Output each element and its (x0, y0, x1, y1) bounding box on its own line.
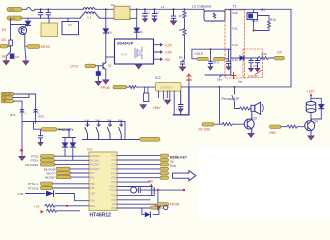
key S4 (108, 122, 112, 140)
svg-text:+18V: +18V (164, 51, 173, 55)
svg-text:OSC1: OSC1 (110, 187, 117, 189)
svg-text:K12: K12 (232, 43, 238, 47)
wire R13r (117, 207, 150, 209)
net pad COl-P (197, 57, 208, 60)
red cross mark T1 bottom (231, 73, 236, 79)
net pad 0V (160, 158, 169, 161)
svg-text:PA5: PA5 (90, 177, 95, 180)
wire L3 to T1 (204, 9, 245, 11)
U1 pin right 2 (154, 51, 163, 53)
resistor R10 (268, 16, 271, 31)
svg-text:PD1: PD1 (111, 195, 116, 197)
net pad PTS3 (40, 186, 52, 189)
resistor R16 (258, 56, 274, 59)
wire U1 left pin (106, 56, 115, 58)
resistor R18 (240, 107, 252, 110)
svg-text:2ESC: 2ESC (41, 45, 51, 49)
svg-text:PD0: PD0 (111, 182, 116, 184)
svg-text:S1: S1 (261, 8, 265, 12)
net pad 1T1V (85, 64, 96, 67)
net pad p4 (160, 167, 169, 170)
wire R3r (117, 163, 160, 165)
resistor R2 body (10, 54, 15, 59)
svg-text:IC1: IC1 (87, 148, 92, 152)
svg-text:Q3: Q3 (253, 117, 257, 121)
svg-text:PA3/AN3: PA3/AN3 (90, 168, 100, 171)
ground Q3 (248, 134, 254, 138)
wire rail right riser (245, 9, 291, 87)
svg-text:R16: R16 (262, 52, 268, 56)
svg-text:R8: R8 (179, 28, 183, 32)
svg-text:R2 19HI: R2 19HI (199, 128, 211, 132)
wire OC pad to branch (6, 46, 10, 60)
relay box T (41, 23, 58, 37)
ground Q4 (308, 136, 314, 140)
svg-text:SD4842P: SD4842P (117, 42, 134, 46)
wire Q3 emitter (250, 131, 253, 134)
svg-text:+12V: +12V (164, 43, 173, 47)
wire secondary tap upper (192, 49, 231, 59)
connector pad ACN (7, 16, 22, 20)
diode D11 (46, 191, 54, 197)
net pad p5 (160, 172, 169, 175)
net pad row long (140, 137, 161, 141)
capacitor C6 (96, 66, 101, 82)
diode D12 (145, 212, 151, 217)
svg-text:L1: L1 (88, 16, 92, 20)
capacitor C2 (152, 9, 157, 18)
flow arrow big (173, 171, 196, 181)
ground Q2 (103, 80, 109, 84)
svg-text:PA1/AN1: PA1/AN1 (90, 159, 100, 162)
switch SW1 (232, 87, 240, 109)
diode D10 (70, 143, 75, 147)
capacitor C13 (179, 91, 184, 115)
svg-text:MOSM: MOSM (45, 176, 55, 180)
wire L1r (54, 155, 89, 157)
svg-text:1N4: 1N4 (107, 119, 112, 123)
svg-text:COl-P: COl-P (194, 52, 203, 56)
svg-text:HT46R12: HT46R12 (90, 212, 112, 218)
ground VR1 (140, 105, 146, 109)
polarity mark C2 (152, 19, 157, 22)
wire drop PTK-C (225, 49, 229, 59)
capacitor C15b (38, 136, 42, 143)
svg-text:PA2/AN2: PA2/AN2 (90, 164, 100, 167)
svg-text:+VM: +VM (17, 192, 24, 196)
svg-text:M8: M8 (22, 28, 26, 32)
svg-text:PB0: PB0 (90, 184, 95, 186)
key S5 (119, 122, 123, 140)
svg-text:K13: K13 (232, 58, 238, 62)
T1 primary winding (230, 9, 232, 75)
wire key row (33, 122, 69, 138)
svg-text:CY: CY (68, 23, 72, 27)
capacitor C1 (143, 9, 148, 18)
wire L7r (53, 183, 89, 185)
wire R10r (117, 194, 155, 196)
svg-text:K36: K36 (232, 11, 238, 15)
red arrow row13 (41, 210, 45, 213)
wire top to bridge (95, 8, 114, 10)
junction xtal (157, 189, 159, 191)
svg-text:PC1: PC1 (111, 160, 116, 162)
net pad bat1 (1, 92, 14, 96)
wire R5r (117, 172, 160, 174)
capacitor C12 (255, 58, 259, 69)
svg-text:PD3: PD3 (111, 208, 116, 210)
svg-text:PA4: PA4 (90, 172, 95, 175)
crystal Y1 (131, 187, 141, 193)
svg-text:BT2: BT2 (39, 115, 45, 119)
wire Q2 source down (105, 70, 107, 81)
wire battery rail (22, 116, 125, 157)
svg-text:PC4: PC4 (111, 173, 116, 175)
capacitor C10 (226, 61, 230, 67)
power symbol +V rail (188, 81, 190, 87)
svg-text:+5V: +5V (148, 179, 155, 183)
wire R4r (117, 168, 160, 170)
svg-text:+5V: +5V (164, 58, 171, 62)
wire fan top (311, 96, 321, 105)
connector pad ACL (7, 7, 22, 11)
wire cap gnd (157, 191, 159, 206)
wire neutral to bridge (100, 17, 115, 19)
svg-text:BT1: BT1 (10, 113, 16, 117)
wire R1r (117, 155, 160, 157)
resistor R1 (9, 40, 13, 46)
power arrow +12V (310, 93, 313, 96)
junction rail D3 (136, 8, 138, 10)
IC2 pin 5 (173, 91, 175, 115)
svg-text:RES: RES (90, 206, 95, 208)
ground left A (3, 61, 9, 65)
wire S1 out (254, 9, 269, 30)
curl mark snubber (220, 75, 226, 77)
inductor L3 box (204, 11, 225, 21)
svg-text:L4: L4 (161, 5, 165, 9)
wire L3r (55, 163, 89, 165)
ground C9 (208, 67, 213, 70)
U1 pin right 3 (154, 58, 163, 60)
power arrow red +V (187, 74, 192, 80)
junction rail q3 (219, 86, 221, 88)
resistor R8 (183, 29, 187, 62)
inductor L1 common-mode choke upper winding (83, 8, 95, 10)
wire L8r (53, 187, 89, 189)
regulator S1 box (247, 13, 258, 20)
net pad PTK-C (214, 57, 225, 60)
svg-text:IC2: IC2 (155, 76, 161, 80)
svg-text:R2: R2 (15, 55, 19, 59)
wire R6r (117, 177, 160, 179)
wire to ground 2 (25, 58, 27, 61)
capacitor C11 (249, 58, 253, 69)
wire T1 bottom tap (205, 74, 231, 76)
svg-text:1N4: 1N4 (95, 119, 100, 123)
diode D5 (25, 21, 30, 25)
trimmer VR1 (143, 87, 149, 104)
wire base drop (214, 87, 222, 124)
svg-text:4842: 4842 (121, 53, 128, 57)
wire DC rail from bridge (130, 8, 204, 10)
ground battery (19, 157, 25, 161)
svg-text:1N4148: 1N4148 (248, 74, 258, 78)
IC2 pin 2 (162, 91, 164, 99)
svg-text:18e: 18e (217, 77, 222, 81)
wire R7r (117, 181, 150, 183)
svg-text:INT: INT (112, 204, 116, 206)
svg-text:ACN: ACN (9, 16, 15, 20)
svg-text:C/F: C/F (277, 50, 282, 54)
capacitor pair C16 (152, 187, 154, 196)
diode D3 (134, 28, 139, 32)
U1 internal mosfet (135, 47, 142, 59)
net pad OC2 (150, 206, 157, 209)
polarity mark C1 (143, 19, 148, 22)
mcu IC1 box (89, 152, 117, 210)
inductor L1 lower winding (80, 12, 100, 18)
net pad bat2 (1, 96, 13, 100)
svg-text:VB-: VB- (2, 100, 6, 103)
wire L4r (70, 168, 89, 170)
net pad OC (0, 44, 8, 48)
wire D3 drop (130, 9, 137, 39)
svg-text:PB1: PB1 (90, 188, 95, 190)
svg-text:PC5: PC5 (111, 178, 116, 180)
net pad FAN (270, 125, 282, 128)
svg-text:K11: K11 (232, 26, 237, 30)
wire L2r (54, 159, 89, 161)
net pad MEME-KEY (160, 154, 169, 157)
svg-text:PnO-KEY: PnO-KEY (59, 128, 75, 132)
wire AC line top (22, 8, 83, 10)
battery BT1 (20, 109, 26, 115)
ground C6 (95, 82, 101, 86)
wire L5r (71, 172, 90, 174)
svg-text:VDD: VDD (90, 194, 95, 196)
wire AC neutral (22, 17, 80, 19)
junction R7 (184, 8, 186, 10)
fuse F1 (27, 7, 36, 10)
wire Q1 emitter down (25, 34, 27, 58)
net pad MOSM (56, 175, 71, 178)
capacitor C14 (171, 9, 175, 21)
diode D8 (319, 104, 324, 108)
capacitor C8 (180, 62, 184, 67)
wire varistor stub (67, 18, 69, 21)
wire IC2 filter loop (174, 87, 189, 115)
wire diode row (26, 194, 90, 201)
wire rail 12V (181, 86, 291, 88)
junction rail C1 (144, 8, 146, 10)
svg-text:PA0/AN0: PA0/AN0 (90, 155, 100, 158)
diode D9 (62, 143, 67, 147)
svg-text:R1: R1 (2, 28, 6, 32)
svg-text:R10: R10 (270, 18, 276, 22)
net pad PPO8 (113, 85, 127, 88)
svg-text:Piezoaa 19F: Piezoaa 19F (222, 97, 240, 101)
resistor R5 (127, 86, 156, 89)
key S3 (96, 122, 100, 140)
junction L4 (173, 8, 175, 10)
net pad 2ESC (27, 45, 40, 49)
junction R22 (66, 205, 68, 207)
svg-text:OSC2: OSC2 (110, 190, 117, 192)
transistor Q2 (103, 63, 106, 70)
ground IC2 (165, 100, 171, 104)
junction rail C2 (154, 8, 156, 10)
svg-text:1N4: 1N4 (84, 119, 89, 123)
polarity C13 (178, 109, 183, 112)
wire sec diode row (231, 57, 258, 59)
net pad R2-PASS (40, 163, 55, 166)
resistor R7 (183, 9, 186, 28)
capacitor CX1 (38, 8, 42, 18)
IC2 pin 3 (166, 91, 168, 97)
wire R11r (117, 199, 150, 201)
svg-text:PD2: PD2 (111, 200, 116, 202)
bridge rectifier D1 (114, 6, 130, 19)
capacitor CX2 (46, 8, 50, 18)
speaker LS1 (251, 102, 263, 114)
svg-text:FAN: FAN (270, 131, 277, 135)
capacitor C9 (208, 61, 212, 67)
svg-text:78L5: 78L5 (251, 19, 258, 23)
op-amp U1 box (115, 39, 154, 64)
key S2 (85, 122, 89, 140)
net pad PTS1.1 (40, 182, 52, 185)
svg-text:PTK-C: PTK-C (210, 61, 220, 65)
white margin bottom-right (198, 147, 330, 221)
net pad FPOR (157, 203, 169, 206)
svg-text:PTS3 B: PTS3 B (28, 186, 38, 190)
wire relay top stub (48, 18, 50, 23)
net pad MLODM (56, 167, 70, 170)
svg-text:PC2: PC2 (111, 164, 116, 166)
U1 pin right 1 (154, 44, 163, 46)
wire primary drop (105, 9, 107, 62)
power mark +5V (150, 184, 153, 187)
cap circle (164, 205, 168, 209)
resistor R22 (45, 204, 89, 207)
diode D2 (103, 29, 108, 33)
ground C16 (155, 206, 161, 210)
svg-text:+45V: +45V (153, 106, 162, 110)
red mark secondary (255, 71, 262, 75)
net pad RL19HI (202, 123, 214, 126)
net pad PTS2 (40, 155, 54, 158)
polarity C12 (255, 69, 260, 72)
junction rail sw (234, 86, 236, 88)
wire row riser (83, 122, 140, 140)
svg-text:LM7805CV: LM7805CV (160, 85, 173, 89)
svg-text:PC3: PC3 (111, 169, 116, 171)
net pad PnA (160, 163, 169, 166)
net pad p6 (160, 176, 169, 179)
resistor R23 (46, 209, 79, 212)
net pad PTEV (40, 159, 54, 162)
red dashed box D6 (243, 49, 263, 78)
transistor Q4 (305, 120, 315, 133)
svg-text:+V2: +V2 (34, 205, 40, 209)
svg-text:PPO8: PPO8 (101, 86, 110, 90)
svg-text:OC: OC (1, 38, 7, 42)
ground left B (23, 61, 29, 65)
wire R12r (117, 203, 157, 205)
svg-text:VSS: VSS (90, 201, 95, 203)
net pad MOP (56, 171, 71, 174)
transistor Q3 (244, 115, 254, 132)
ground C8 (180, 67, 186, 71)
wire fan bottom loop (311, 109, 321, 120)
power mark red (20, 148, 24, 151)
svg-text:+12V: +12V (307, 89, 316, 93)
wire bottom row (142, 209, 159, 215)
svg-text:PC0: PC0 (111, 156, 116, 158)
wire R9r (117, 189, 184, 191)
polarity C11 (249, 69, 254, 72)
junction sec (210, 48, 212, 50)
svg-text:T1: T1 (233, 5, 237, 9)
svg-text:R6: R6 (179, 56, 183, 60)
svg-text:1T1V: 1T1V (70, 64, 79, 68)
wire snubber branch (11, 18, 29, 46)
IC2 pin 4 (169, 91, 171, 99)
svg-text:FPOR: FPOR (170, 202, 180, 206)
wire base (96, 65, 104, 67)
resistor R19 (222, 123, 244, 126)
svg-text:R7: R7 (179, 14, 183, 18)
net pad C/F (274, 56, 285, 60)
junction end dot (183, 189, 185, 191)
motor M1 (306, 102, 316, 113)
wire Q4 emitter (310, 133, 312, 136)
diode D6 (240, 56, 244, 60)
svg-text:ACL: ACL (9, 8, 15, 12)
wire R8r (117, 186, 152, 188)
wire R2r (117, 159, 160, 161)
net pad bat3 (1, 99, 14, 103)
wire diode pair riser (63, 138, 76, 161)
svg-text:L3 Coilpand: L3 Coilpand (192, 5, 211, 9)
wire drop C10 (228, 59, 230, 61)
wire Q3 collector speaker (251, 111, 253, 114)
svg-text:PnA: PnA (170, 164, 177, 168)
svg-text:1N4: 1N4 (118, 119, 123, 123)
IC1 pin name columns (90, 155, 116, 210)
junction S1 (253, 29, 255, 31)
ground C10 (226, 67, 231, 70)
svg-text:R2-PASS: R2-PASS (26, 163, 39, 167)
red dashed selection box T1 (225, 10, 245, 78)
varistor box CY (62, 22, 79, 35)
svg-text:MEME-KEY: MEME-KEY (170, 155, 188, 159)
IC2 pin 1 (158, 91, 160, 97)
transistor Q1 (19, 27, 27, 35)
node A junction at 105.8,8 (105, 8, 107, 10)
battery BT2 (34, 109, 40, 115)
svg-text:Jae: Jae (238, 80, 243, 84)
resistor R20 (281, 125, 305, 128)
wire L6r (71, 176, 89, 178)
regulator IC2 (156, 83, 182, 92)
wire drop C9 (210, 49, 212, 61)
ground C14 (171, 21, 177, 25)
ground U1 (136, 65, 142, 69)
wire bat pads (13, 94, 36, 110)
net pad PnO-KEY (41, 128, 74, 132)
